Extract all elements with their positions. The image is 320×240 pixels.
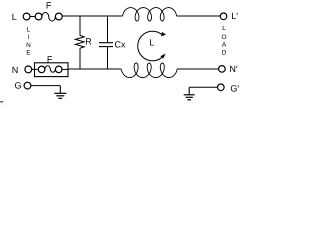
ground left bar 1 [54,92,66,94]
svg-text:A: A [222,42,227,49]
wire junction drop to resistor R [79,16,81,36]
terminal L [23,13,30,20]
svg-text:N′: N′ [229,64,237,74]
svg-text:E: E [26,50,30,57]
corner artifact red pixel [0,101,1,103]
svg-text:F: F [46,0,52,10]
svg-text:Cx: Cx [115,40,126,50]
ground right bar 2 [186,96,193,98]
inductor choke bottom winding [121,63,177,78]
terminal N' [219,66,226,73]
common-mode choke symbol: circular arrow [138,31,162,61]
svg-text:R: R [85,36,92,46]
capacitor Cx bottom plate [99,46,113,48]
wire junction drop to capacitor Cx [107,16,109,43]
ground left bar 2 [56,95,64,97]
svg-text:L: L [149,37,154,47]
svg-text:G′: G′ [230,84,239,94]
wire ground to terminal G' [189,86,217,88]
bottom fuse sine element [45,66,56,72]
terminal L' [220,13,227,20]
wire terminal N to fuse box [32,68,39,70]
corner artifact green pixel [1,101,2,103]
svg-text:L: L [12,12,17,22]
inductor choke top winding [123,8,177,21]
fuse holder box [35,63,69,77]
fuse F right circle [55,13,62,20]
fuse F sine element [42,13,55,22]
corner artifact blue pixel [2,101,3,103]
wire terminal L to fuse F [30,16,35,18]
choke arrowhead bottom [160,54,165,59]
wire resistor R to bottom rail [79,48,81,69]
svg-text:D: D [222,50,227,57]
terminal N [25,66,32,73]
bottom fuse right circle [55,66,62,73]
wire choke to terminal L' [177,15,221,17]
terminal G' [218,84,225,91]
terminal G [24,82,31,89]
svg-text:I: I [28,34,30,41]
ground right stem [188,87,190,95]
svg-text:L: L [222,25,226,32]
resistor R [75,35,84,48]
fuse F left circle [35,13,42,20]
wire top rail fuse to choke [62,15,122,17]
capacitor Cx top plate [99,42,113,44]
ground right bar 3 [187,99,191,101]
svg-text:G: G [15,81,22,91]
ground right bar 1 [184,94,195,96]
wire capacitor Cx to bottom rail [107,47,109,69]
choke arrowhead top [161,32,166,36]
svg-text:L: L [27,27,31,34]
wire fuse to fuse box edge [62,68,68,70]
wire choke to terminal N' [177,68,218,70]
svg-text:N: N [12,65,18,75]
wire terminal G to ground [31,85,60,87]
bottom fuse left circle [38,66,45,73]
svg-text:N: N [26,42,31,49]
ground left stem [59,86,61,94]
ground left bar 3 [58,97,62,99]
wire bottom rail fuse box to choke [68,68,121,70]
svg-text:O: O [222,34,227,41]
svg-text:L′: L′ [231,11,238,21]
